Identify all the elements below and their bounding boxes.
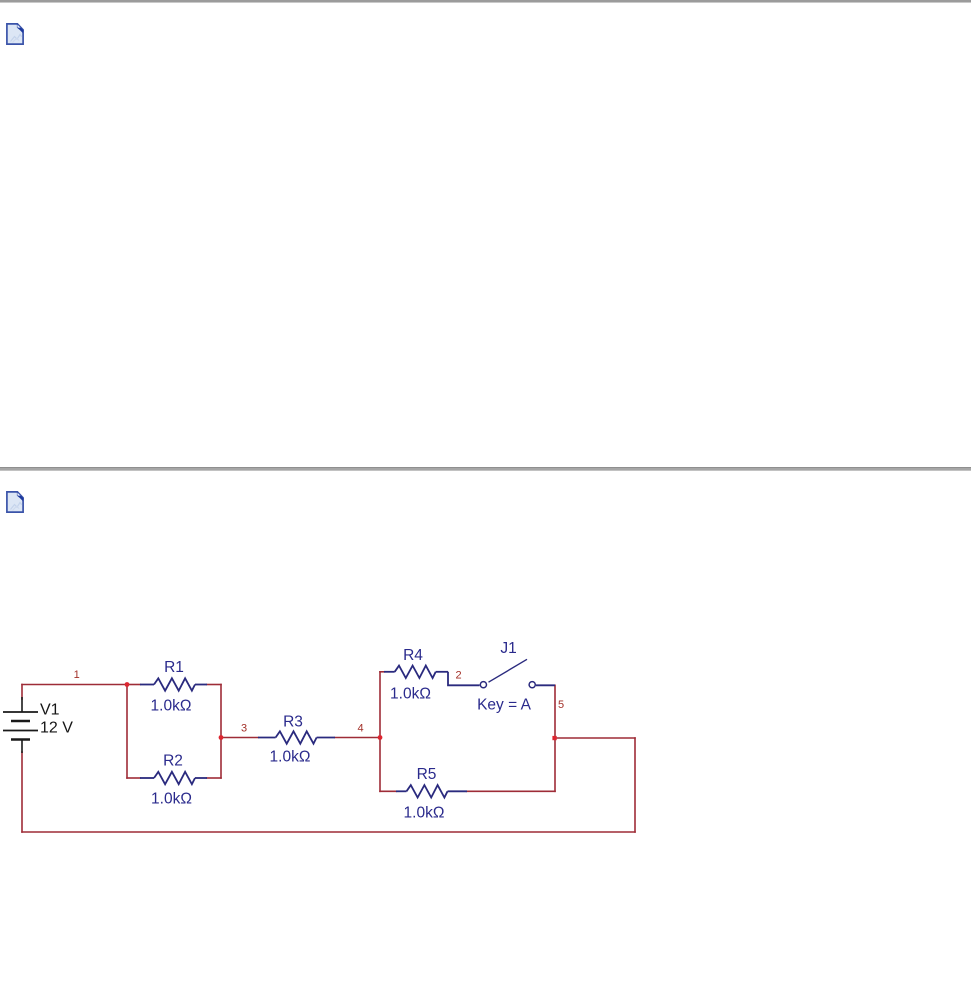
svg-text:1.0kΩ: 1.0kΩ: [404, 805, 445, 822]
svg-text:1.0kΩ: 1.0kΩ: [270, 749, 311, 766]
svg-text:R2: R2: [163, 753, 183, 770]
svg-text:4: 4: [358, 723, 364, 735]
svg-text:1: 1: [74, 669, 80, 681]
svg-text:2: 2: [455, 670, 461, 682]
svg-text:1.0kΩ: 1.0kΩ: [151, 698, 192, 715]
svg-text:R1: R1: [164, 659, 184, 676]
svg-text:1.0kΩ: 1.0kΩ: [390, 686, 431, 703]
svg-text:3: 3: [241, 723, 247, 735]
svg-text:Key = A: Key = A: [477, 697, 532, 714]
svg-text:V1: V1: [40, 702, 60, 719]
svg-text:R3: R3: [283, 714, 303, 731]
svg-text:R5: R5: [417, 766, 437, 783]
svg-text:5: 5: [558, 699, 564, 711]
svg-text:1.0kΩ: 1.0kΩ: [151, 791, 192, 808]
svg-text:R4: R4: [403, 647, 423, 664]
svg-text:J1: J1: [500, 640, 516, 657]
svg-text:12 V: 12 V: [40, 719, 73, 736]
